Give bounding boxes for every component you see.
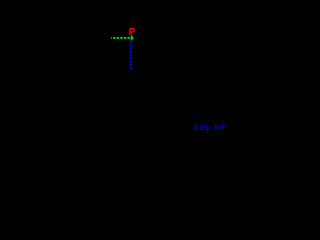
wire blue dashed vertical vector <box>129 41 132 69</box>
svg-text:X deg / DIV: X deg / DIV <box>193 123 225 132</box>
svg-text:P: P <box>129 27 136 38</box>
wire green dashed horizontal vector <box>111 35 134 40</box>
